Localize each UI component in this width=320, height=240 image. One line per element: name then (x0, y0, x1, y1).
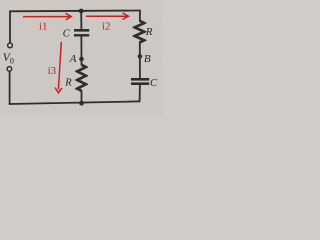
svg-text:A: A (69, 53, 77, 65)
wire middle branch lower (81, 91, 83, 103)
svg-text:C: C (150, 78, 158, 89)
wire middle branch mid (80, 36, 82, 65)
svg-text:i1: i1 (39, 21, 48, 33)
svg-text:B: B (144, 53, 151, 65)
wire left vertical upper (9, 11, 11, 42)
junction dot top middle (79, 9, 84, 14)
capacitor C right: plates (131, 79, 149, 83)
svg-text:R: R (145, 26, 153, 38)
svg-text:C: C (63, 29, 71, 40)
wire right branch lower (139, 85, 141, 102)
resistor R right zigzag (135, 21, 145, 43)
node A dot (79, 57, 84, 62)
svg-text:i2: i2 (102, 20, 111, 32)
wire middle branch upper (80, 11, 82, 29)
current arrow i1 (23, 13, 71, 20)
terminal circle lower (7, 67, 12, 72)
wire top horizontal (10, 10, 140, 13)
current arrow i2 (86, 13, 128, 20)
current arrow i3 (55, 42, 62, 93)
node B dot (138, 54, 143, 59)
capacitor C middle: plates (74, 30, 89, 35)
junction dot bottom middle (79, 101, 84, 106)
terminal circle upper (V0 +) (8, 43, 13, 48)
resistor R middle zigzag (77, 65, 86, 91)
paper background (0, 0, 163, 116)
svg-text:i3: i3 (48, 65, 57, 77)
wire right branch mid (139, 42, 141, 78)
wire bottom horizontal (10, 101, 140, 104)
wire right branch upper (139, 11, 141, 21)
svg-text:R: R (64, 77, 72, 88)
wire left vertical lower (9, 71, 11, 104)
